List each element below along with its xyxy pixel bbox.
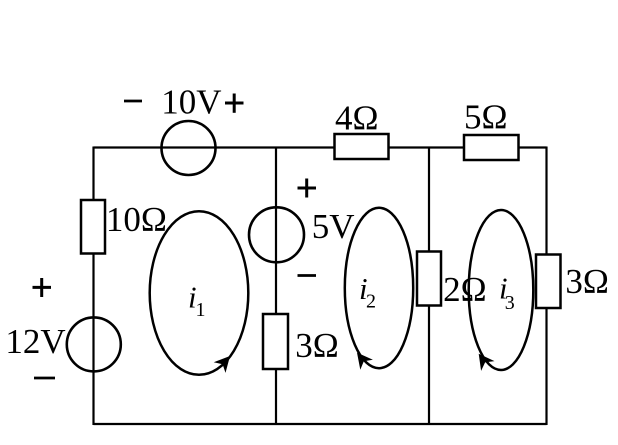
svg-text:3Ω: 3Ω xyxy=(565,262,609,301)
resistor R5 2ohm box xyxy=(417,252,441,306)
wire middle branch lower xyxy=(275,369,277,426)
wire top middle segment between node B and 4ohm xyxy=(276,146,335,148)
wire top-left segment (through 10V source) xyxy=(94,146,277,148)
wire 4ohm to node C xyxy=(389,146,430,148)
wire left branch lower (through 12V source) xyxy=(92,253,94,425)
wire middle branch upper (through 5V source) xyxy=(275,147,277,315)
wire third branch lower xyxy=(428,306,430,426)
svg-text:5V: 5V xyxy=(312,207,355,246)
wire right branch upper xyxy=(545,147,547,255)
wire right branch lower xyxy=(545,308,547,425)
svg-text:4Ω: 4Ω xyxy=(335,99,379,138)
svg-text:10Ω: 10Ω xyxy=(106,200,167,239)
svg-text:2Ω: 2Ω xyxy=(443,270,487,309)
mesh current loop i1 arrowhead xyxy=(214,356,230,373)
svg-text:3Ω: 3Ω xyxy=(295,326,339,365)
mesh current loop i3 ellipse xyxy=(469,210,534,370)
resistor R4 5ohm box xyxy=(464,135,519,160)
label plus of 10V xyxy=(225,94,244,113)
wire bottom rail xyxy=(94,423,547,425)
svg-text:10V: 10V xyxy=(161,82,221,121)
label plus of 12V xyxy=(33,278,52,297)
wire node C to 5ohm xyxy=(429,146,464,148)
resistor R2 3ohm (middle) box xyxy=(263,314,288,369)
svg-text:1: 1 xyxy=(196,299,206,321)
svg-text:5Ω: 5Ω xyxy=(464,98,508,137)
label minus of 10V xyxy=(124,100,142,103)
mesh current loop i2 ellipse xyxy=(345,208,413,368)
resistor R3 4ohm box xyxy=(335,134,389,159)
svg-text:2: 2 xyxy=(366,291,376,313)
mesh current loop i1 ellipse xyxy=(150,211,249,375)
label plus of 5V xyxy=(298,179,317,198)
label minus of 12V xyxy=(34,377,55,380)
svg-text:3: 3 xyxy=(505,292,515,314)
mesh current loop i2 arrowhead xyxy=(357,353,373,370)
voltage source V3 5V circle xyxy=(249,207,304,262)
svg-text:12V: 12V xyxy=(5,322,65,361)
wire third branch upper xyxy=(428,147,430,252)
mesh current loop i3 arrowhead xyxy=(479,354,495,371)
label minus of 5V xyxy=(298,274,317,277)
voltage source V1 10V circle xyxy=(162,121,216,175)
voltage source V2 12V circle xyxy=(67,317,121,371)
resistor R1 10ohm box xyxy=(81,200,105,254)
resistor R6 3ohm (right) box xyxy=(536,255,561,309)
wire left branch upper (to resistor 10ohm) xyxy=(92,147,94,201)
wire 5ohm to top-right corner xyxy=(519,146,547,148)
